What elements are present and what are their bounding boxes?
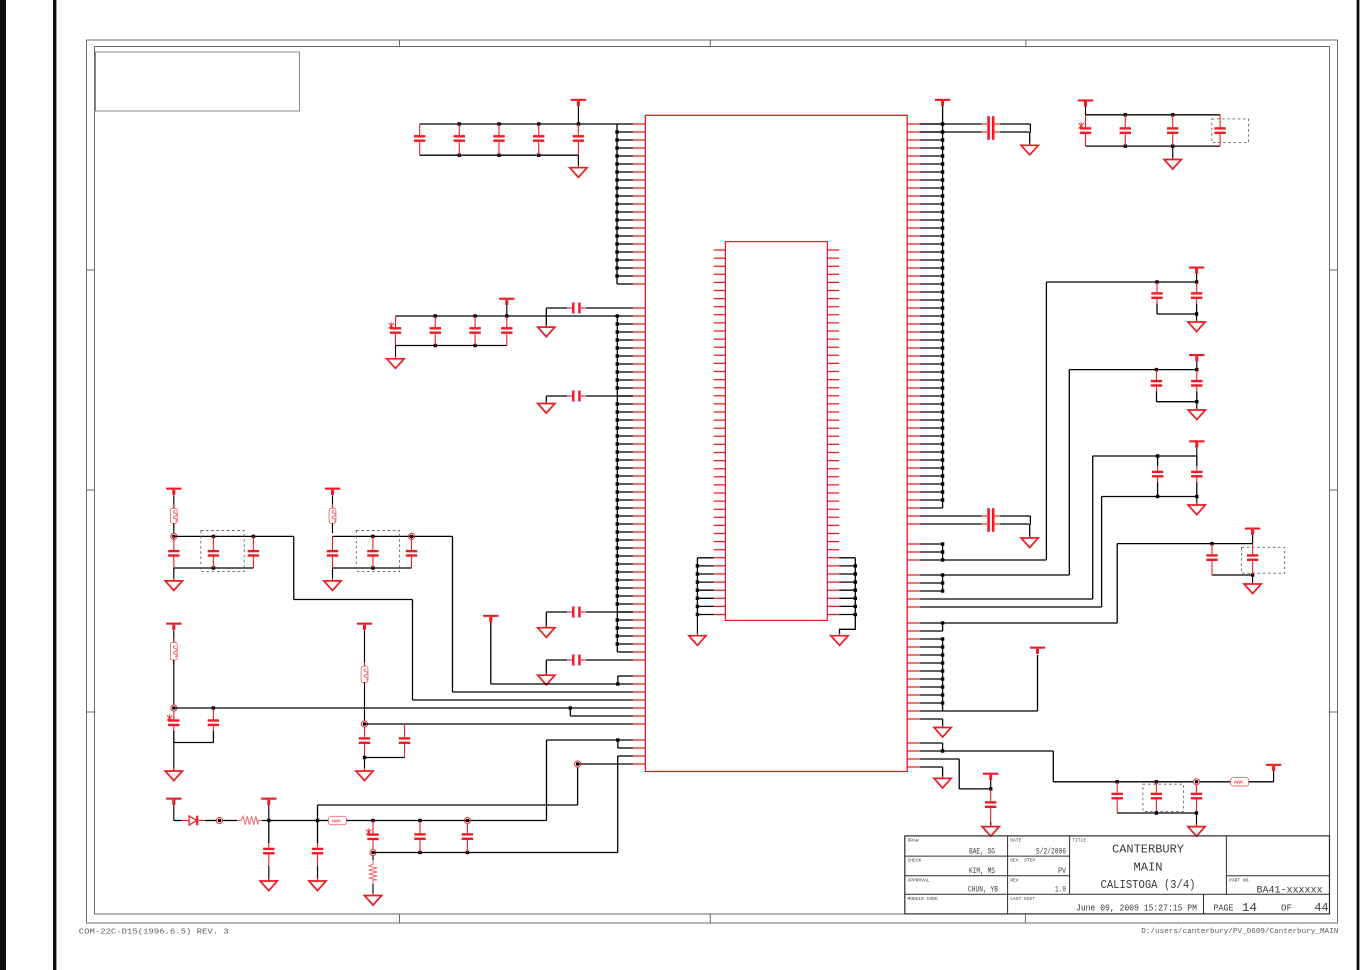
wire row 719 to ground — [920, 719, 943, 728]
capacitor C105 — [1152, 456, 1163, 497]
wire net R2 (rows 544-560 to power group) — [920, 280, 1199, 561]
wire node to resistor — [222, 820, 237, 822]
ground row 767 — [934, 776, 951, 788]
svg-text:BA41-xxxxxx: BA41-xxxxxx — [1257, 885, 1323, 896]
svg-text:PV: PV — [1058, 866, 1067, 876]
power symbol top-right bank — [1078, 99, 1093, 114]
capacitor C84 — [414, 821, 425, 853]
svg-text:CHECK: CHECK — [908, 858, 922, 864]
capacitor pair C93/C94 (series to gnd) — [920, 508, 1031, 538]
wire U1 right bus3 rows 639-711 — [920, 637, 1038, 711]
svg-text:DRAW: DRAW — [908, 838, 919, 844]
capacitor C72 — [399, 724, 410, 758]
power symbol P6 — [261, 798, 276, 821]
ground C81 — [260, 866, 277, 891]
capacitor C23 (series) — [546, 607, 633, 628]
svg-text:APPROVAL: APPROVAL — [908, 877, 930, 883]
capacitor C103 — [1151, 370, 1162, 402]
capacitor C83 (star) — [366, 821, 379, 850]
power symbol L3 — [166, 623, 181, 630]
wire net R6 (rows 743/751) — [920, 743, 1194, 784]
ferrite bead L2 — [329, 495, 336, 533]
ground R3 — [1188, 402, 1205, 420]
wire top cap bank rails — [420, 122, 617, 157]
capacitor pair C91/C92 (series to gnd) — [920, 116, 1031, 145]
wire riser x546.5 to row 740 — [547, 738, 633, 820]
wire net row 692 (from L2 group) — [412, 536, 633, 692]
capacitor C15 — [573, 124, 584, 155]
ground U2 left ladder — [689, 615, 706, 646]
border zone ticks bottom — [399, 914, 401, 923]
capacitor C111 — [1112, 782, 1123, 813]
power symbol R4 — [1189, 440, 1204, 456]
power symbol P3 — [483, 615, 498, 622]
capacitor C52 — [367, 536, 378, 568]
wire diode to node — [205, 820, 217, 822]
ground C82 — [309, 866, 326, 891]
wire mid cap bank rails — [396, 314, 509, 347]
ground L2 — [324, 568, 341, 591]
wire circle to bead R6 — [1200, 781, 1231, 783]
svg-text:CANTERBURY: CANTERBURY — [1112, 843, 1184, 857]
DNP box R6 — [1143, 784, 1184, 811]
pins of U1 right edge — [907, 124, 920, 767]
capacitor C34 — [501, 316, 512, 346]
ground L1 — [165, 568, 182, 591]
revision box top-left — [96, 52, 300, 111]
ground L4 — [356, 758, 373, 781]
svg-text:June 09, 2009 15:27:15 PM: June 09, 2009 15:27:15 PM — [1076, 903, 1197, 913]
scan edge line right — [1357, 0, 1360, 970]
svg-text:LAST EDIT: LAST EDIT — [1010, 896, 1035, 902]
title block frame — [905, 836, 1330, 914]
capacitor C108 — [1247, 544, 1258, 575]
title block labels — [908, 838, 1252, 902]
wire rail B — [373, 851, 618, 854]
svg-text:COM-22C-D15(1996.6.5) REV. 3: COM-22C-D15(1996.6.5) REV. 3 — [79, 929, 230, 937]
wire resistor to junction — [262, 819, 319, 822]
wire net R4 bottom (row 607) — [920, 495, 1199, 607]
ground C114 — [982, 822, 999, 836]
wire riser to rail 805 — [318, 805, 578, 821]
pins of U1 left edge — [633, 124, 646, 764]
wire U1 left bus B and rail to mid cap bank — [396, 314, 633, 652]
ground C21 — [538, 325, 555, 337]
power symbol mid bank — [499, 298, 514, 316]
capacitor C22 (series) — [546, 391, 633, 404]
wire L2 rails — [333, 535, 412, 570]
wire U1 right main bus — [920, 106, 945, 508]
ferrite bead L5 — [329, 816, 347, 824]
ground C23 — [538, 625, 555, 637]
svg-text:MODULE CODE: MODULE CODE — [908, 896, 939, 902]
pins of U2 right edge — [827, 250, 839, 615]
ground C24 — [538, 673, 555, 685]
wire chain start — [174, 805, 182, 821]
dots rows124/132 — [941, 122, 944, 133]
capacitor C122 — [1120, 115, 1131, 146]
svg-text:REV: REV — [1010, 877, 1019, 883]
wire L3 cap join — [174, 742, 214, 744]
capacitor C123 — [1167, 115, 1178, 146]
capacitor C62 — [208, 708, 219, 743]
svg-text:5/2/2006: 5/2/2006 — [1036, 847, 1066, 857]
capacitor C53 — [406, 536, 417, 568]
capacitor C81 — [263, 821, 274, 867]
svg-text:1.0: 1.0 — [1055, 885, 1066, 895]
ground mid bank — [387, 346, 404, 369]
node circle L3 — [171, 705, 177, 711]
capacitor C106 — [1191, 456, 1202, 497]
svg-text:PAGE: PAGE — [1214, 903, 1234, 913]
ground L3 — [165, 743, 182, 781]
DNP box L1 — [201, 531, 244, 572]
capacitor C41 — [168, 536, 179, 568]
capacitor C13 — [493, 124, 504, 155]
ground R4 — [1188, 497, 1205, 515]
capacitor C113 — [1191, 785, 1202, 813]
wire row 767 to ground — [920, 767, 943, 778]
main IC U1 body — [645, 115, 907, 771]
svg-text:CALISTOGA (3/4): CALISTOGA (3/4) — [1101, 878, 1196, 892]
ferrite bead L4 — [361, 630, 368, 721]
wire bus U1 left group A to top cap bank — [615, 124, 633, 284]
node circle L2 — [408, 533, 414, 539]
ferrite bead L6 — [1231, 778, 1249, 786]
node circle N1 — [216, 817, 222, 823]
capacitor C107 — [1206, 544, 1217, 575]
pins of U2 left edge — [714, 250, 726, 615]
ferrite bead L3 — [170, 630, 177, 705]
capacitor C85 — [462, 824, 473, 853]
node circle L1 — [171, 533, 177, 539]
wire top-right bank rails — [1086, 113, 1221, 148]
node circle N2 — [370, 849, 376, 855]
wire net R4 top (row 599) — [920, 454, 1197, 599]
capacitor C61 (star) — [167, 712, 180, 743]
wire net row 684 with jog — [491, 622, 633, 686]
wire net R3 (rows 575-591 to power group) — [920, 368, 1199, 593]
svg-text:CHUN, YB: CHUN, YB — [968, 885, 998, 895]
capacitor C42 — [208, 536, 219, 568]
wire L1 rails — [174, 535, 294, 570]
capacitor C31 — [389, 316, 402, 346]
svg-text:OF: OF — [1281, 903, 1292, 913]
wire net R5 (rows 623/631 to power group) — [920, 542, 1255, 631]
node circle N4 and riser to row 764 — [575, 761, 633, 805]
capacitor C114 — [985, 789, 996, 822]
wire riser x617.7 to row 756 — [618, 756, 633, 853]
capacitor C104 — [1191, 370, 1202, 402]
ferrite bead L1 — [170, 495, 177, 533]
wire bead to power R6 — [1249, 781, 1274, 783]
wire bead to junction — [347, 819, 547, 822]
connector U2 body (inner module) — [725, 242, 827, 621]
capacitor C14 — [533, 124, 544, 155]
wire L3 rail row 708 and jog to 716 — [174, 706, 633, 716]
ground C22 — [538, 401, 555, 413]
wire L4 cap join — [363, 756, 405, 759]
resistor R1 — [237, 816, 262, 824]
svg-text:DEV. STEP: DEV. STEP — [1010, 858, 1035, 864]
power symbol R6 — [1266, 764, 1281, 782]
scan edge line left — [53, 0, 56, 970]
DNP box top-right — [1212, 119, 1249, 143]
power symbol right bus — [935, 99, 950, 106]
capacitor C82 — [312, 821, 323, 867]
svg-text:DATE: DATE — [1010, 838, 1021, 844]
ground U2 right ladder — [831, 633, 848, 645]
capacitor C51 — [327, 536, 338, 568]
svg-text:TITLE: TITLE — [1072, 838, 1086, 844]
wire to bead — [318, 820, 329, 822]
capacitor C21 (series) — [546, 303, 633, 328]
power symbol R2 — [1189, 267, 1204, 283]
svg-text:PART NO.: PART NO. — [1229, 878, 1251, 884]
capacitor C71 — [359, 727, 370, 757]
capacitor C24 (series) — [546, 655, 633, 676]
power symbol R3 — [1189, 354, 1204, 370]
ground R5 — [1244, 575, 1261, 594]
capacitor C102 — [1191, 282, 1202, 314]
wire net row 759 — [920, 759, 993, 791]
svg-text:14: 14 — [1242, 902, 1257, 915]
capacitor C12 — [454, 124, 465, 155]
wire L4 rail row 724 — [365, 723, 633, 725]
power symbol L1 — [166, 488, 181, 495]
svg-text:MAIN: MAIN — [1134, 861, 1163, 875]
ground R6 — [1188, 813, 1205, 836]
svg-text:BAE, SG: BAE, SG — [969, 847, 995, 857]
capacitor C11 — [414, 124, 425, 155]
border zone ticks right — [1330, 269, 1338, 271]
svg-text:44: 44 — [1315, 902, 1329, 915]
capacitor C33 — [469, 316, 480, 346]
diode D1 — [182, 816, 205, 826]
capacitor C124 — [1214, 115, 1225, 146]
title block values — [968, 843, 1329, 915]
capacitor C101 — [1151, 282, 1162, 314]
border zone ticks left — [87, 269, 95, 271]
power symbol top bank — [571, 99, 586, 124]
wire R6 join — [1117, 811, 1198, 814]
ground row 719 — [934, 725, 951, 737]
power symbol P5 — [166, 798, 181, 805]
ground C91 — [1021, 143, 1038, 155]
power symbol bus3 — [1030, 647, 1045, 654]
border zone ticks top — [399, 40, 401, 47]
svg-text:KIM, MS: KIM, MS — [969, 866, 995, 876]
capacitor C43 — [248, 536, 259, 568]
wire net row 700 (from L1 group) — [294, 536, 633, 700]
ground top bank — [570, 155, 587, 177]
power symbol L2 — [325, 488, 340, 495]
ground C93 — [1021, 536, 1038, 548]
capacitor C112 — [1151, 782, 1162, 813]
wire U2 bottom-left pin ladder — [696, 558, 714, 616]
node circle R6 — [1193, 779, 1199, 785]
node circle L4 — [361, 721, 367, 727]
power symbol row759 — [983, 773, 998, 789]
ground R2 — [1188, 314, 1205, 332]
power symbol L4 — [357, 623, 372, 630]
resistor R2 — [369, 856, 377, 896]
capacitor C121 — [1079, 115, 1092, 146]
DNP box L2 — [356, 531, 399, 572]
ground top-right bank — [1164, 146, 1181, 169]
wire U2 bottom-right pin ladder — [839, 558, 857, 636]
node circle N3 — [464, 817, 470, 823]
power symbol R5 — [1245, 528, 1260, 544]
ground R2 — [364, 893, 381, 905]
scan edge bar left — [0, 0, 6, 970]
svg-text:D:/users/canterbury/PV_0609/Ca: D:/users/canterbury/PV_0609/Canterbury_M… — [1141, 928, 1338, 936]
capacitor C32 — [430, 316, 441, 346]
DNP box R5 — [1242, 547, 1285, 573]
